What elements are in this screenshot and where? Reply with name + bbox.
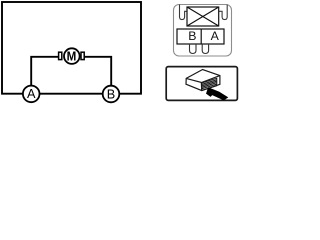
ammeter A body (23, 86, 40, 103)
tool button: component 3D box inner edges (186, 76, 220, 91)
toolbox motor icon: armature winding box with X (187, 7, 219, 26)
tool button: component 3D box outline (186, 70, 220, 91)
toolbox motor icon: left brush-holder slot (180, 5, 188, 20)
toolbox motor icon: right brush-holder slot (219, 5, 228, 20)
motor M1 right brush (81, 52, 84, 59)
toolbox motor icon: left mounting foot (190, 44, 197, 54)
wire: branch from motor right terminal right and down to ammeter B (84, 57, 111, 94)
tool button: select/place-component frame (166, 67, 237, 101)
tool button: component box grille outline (201, 78, 217, 90)
svg-text:A: A (27, 87, 36, 101)
svg-text:B: B (188, 29, 196, 43)
tool button: black select arrow cursor (206, 87, 228, 100)
wire: outer circuit loop (2, 2, 141, 94)
toolbox motor icon: terminal block divider (200, 29, 202, 44)
motor M1 left brush (59, 52, 62, 59)
svg-text:A: A (211, 29, 220, 43)
wire: branch from ammeter A up and right to motor left terminal (31, 57, 58, 94)
tool button: component box grille lines (201, 80, 217, 89)
svg-text:B: B (107, 87, 115, 101)
toolbox motor icon: terminal block outline (177, 29, 224, 44)
ammeter B body (103, 86, 120, 103)
motor M1 body (64, 48, 80, 64)
toolbox icon: physical motor with terminals B and A, outer case (174, 5, 232, 57)
svg-text:M: M (67, 49, 77, 64)
toolbox motor icon: right mounting foot (202, 44, 208, 54)
